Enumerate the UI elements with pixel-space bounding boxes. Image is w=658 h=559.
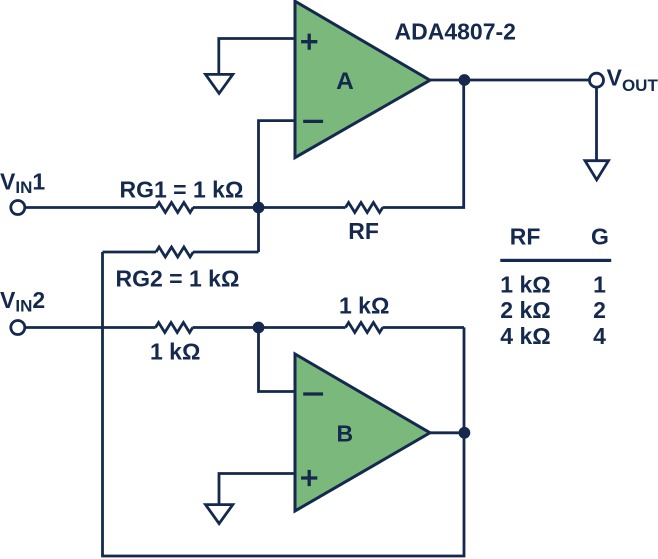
- svg-text:1 kΩ: 1 kΩ: [150, 338, 200, 364]
- svg-text:VIN2: VIN2: [0, 287, 45, 316]
- svg-text:ADA4807-2: ADA4807-2: [395, 18, 516, 44]
- svg-text:VIN1: VIN1: [0, 169, 45, 198]
- svg-text:2 kΩ: 2 kΩ: [500, 297, 550, 323]
- svg-text:2: 2: [593, 297, 606, 323]
- svg-text:VOUT: VOUT: [607, 65, 658, 96]
- svg-text:RF: RF: [348, 218, 379, 244]
- svg-text:RG2 = 1 kΩ: RG2 = 1 kΩ: [116, 265, 240, 291]
- svg-text:1: 1: [593, 272, 606, 298]
- svg-text:RF: RF: [510, 224, 541, 250]
- svg-text:A: A: [336, 68, 354, 95]
- svg-text:G: G: [591, 224, 609, 250]
- svg-text:RG1 = 1 kΩ: RG1 = 1 kΩ: [120, 177, 244, 203]
- svg-text:B: B: [336, 420, 353, 446]
- svg-text:4 kΩ: 4 kΩ: [500, 323, 550, 349]
- svg-text:1 kΩ: 1 kΩ: [500, 272, 550, 298]
- svg-text:1 kΩ: 1 kΩ: [339, 292, 389, 318]
- svg-text:4: 4: [593, 323, 606, 349]
